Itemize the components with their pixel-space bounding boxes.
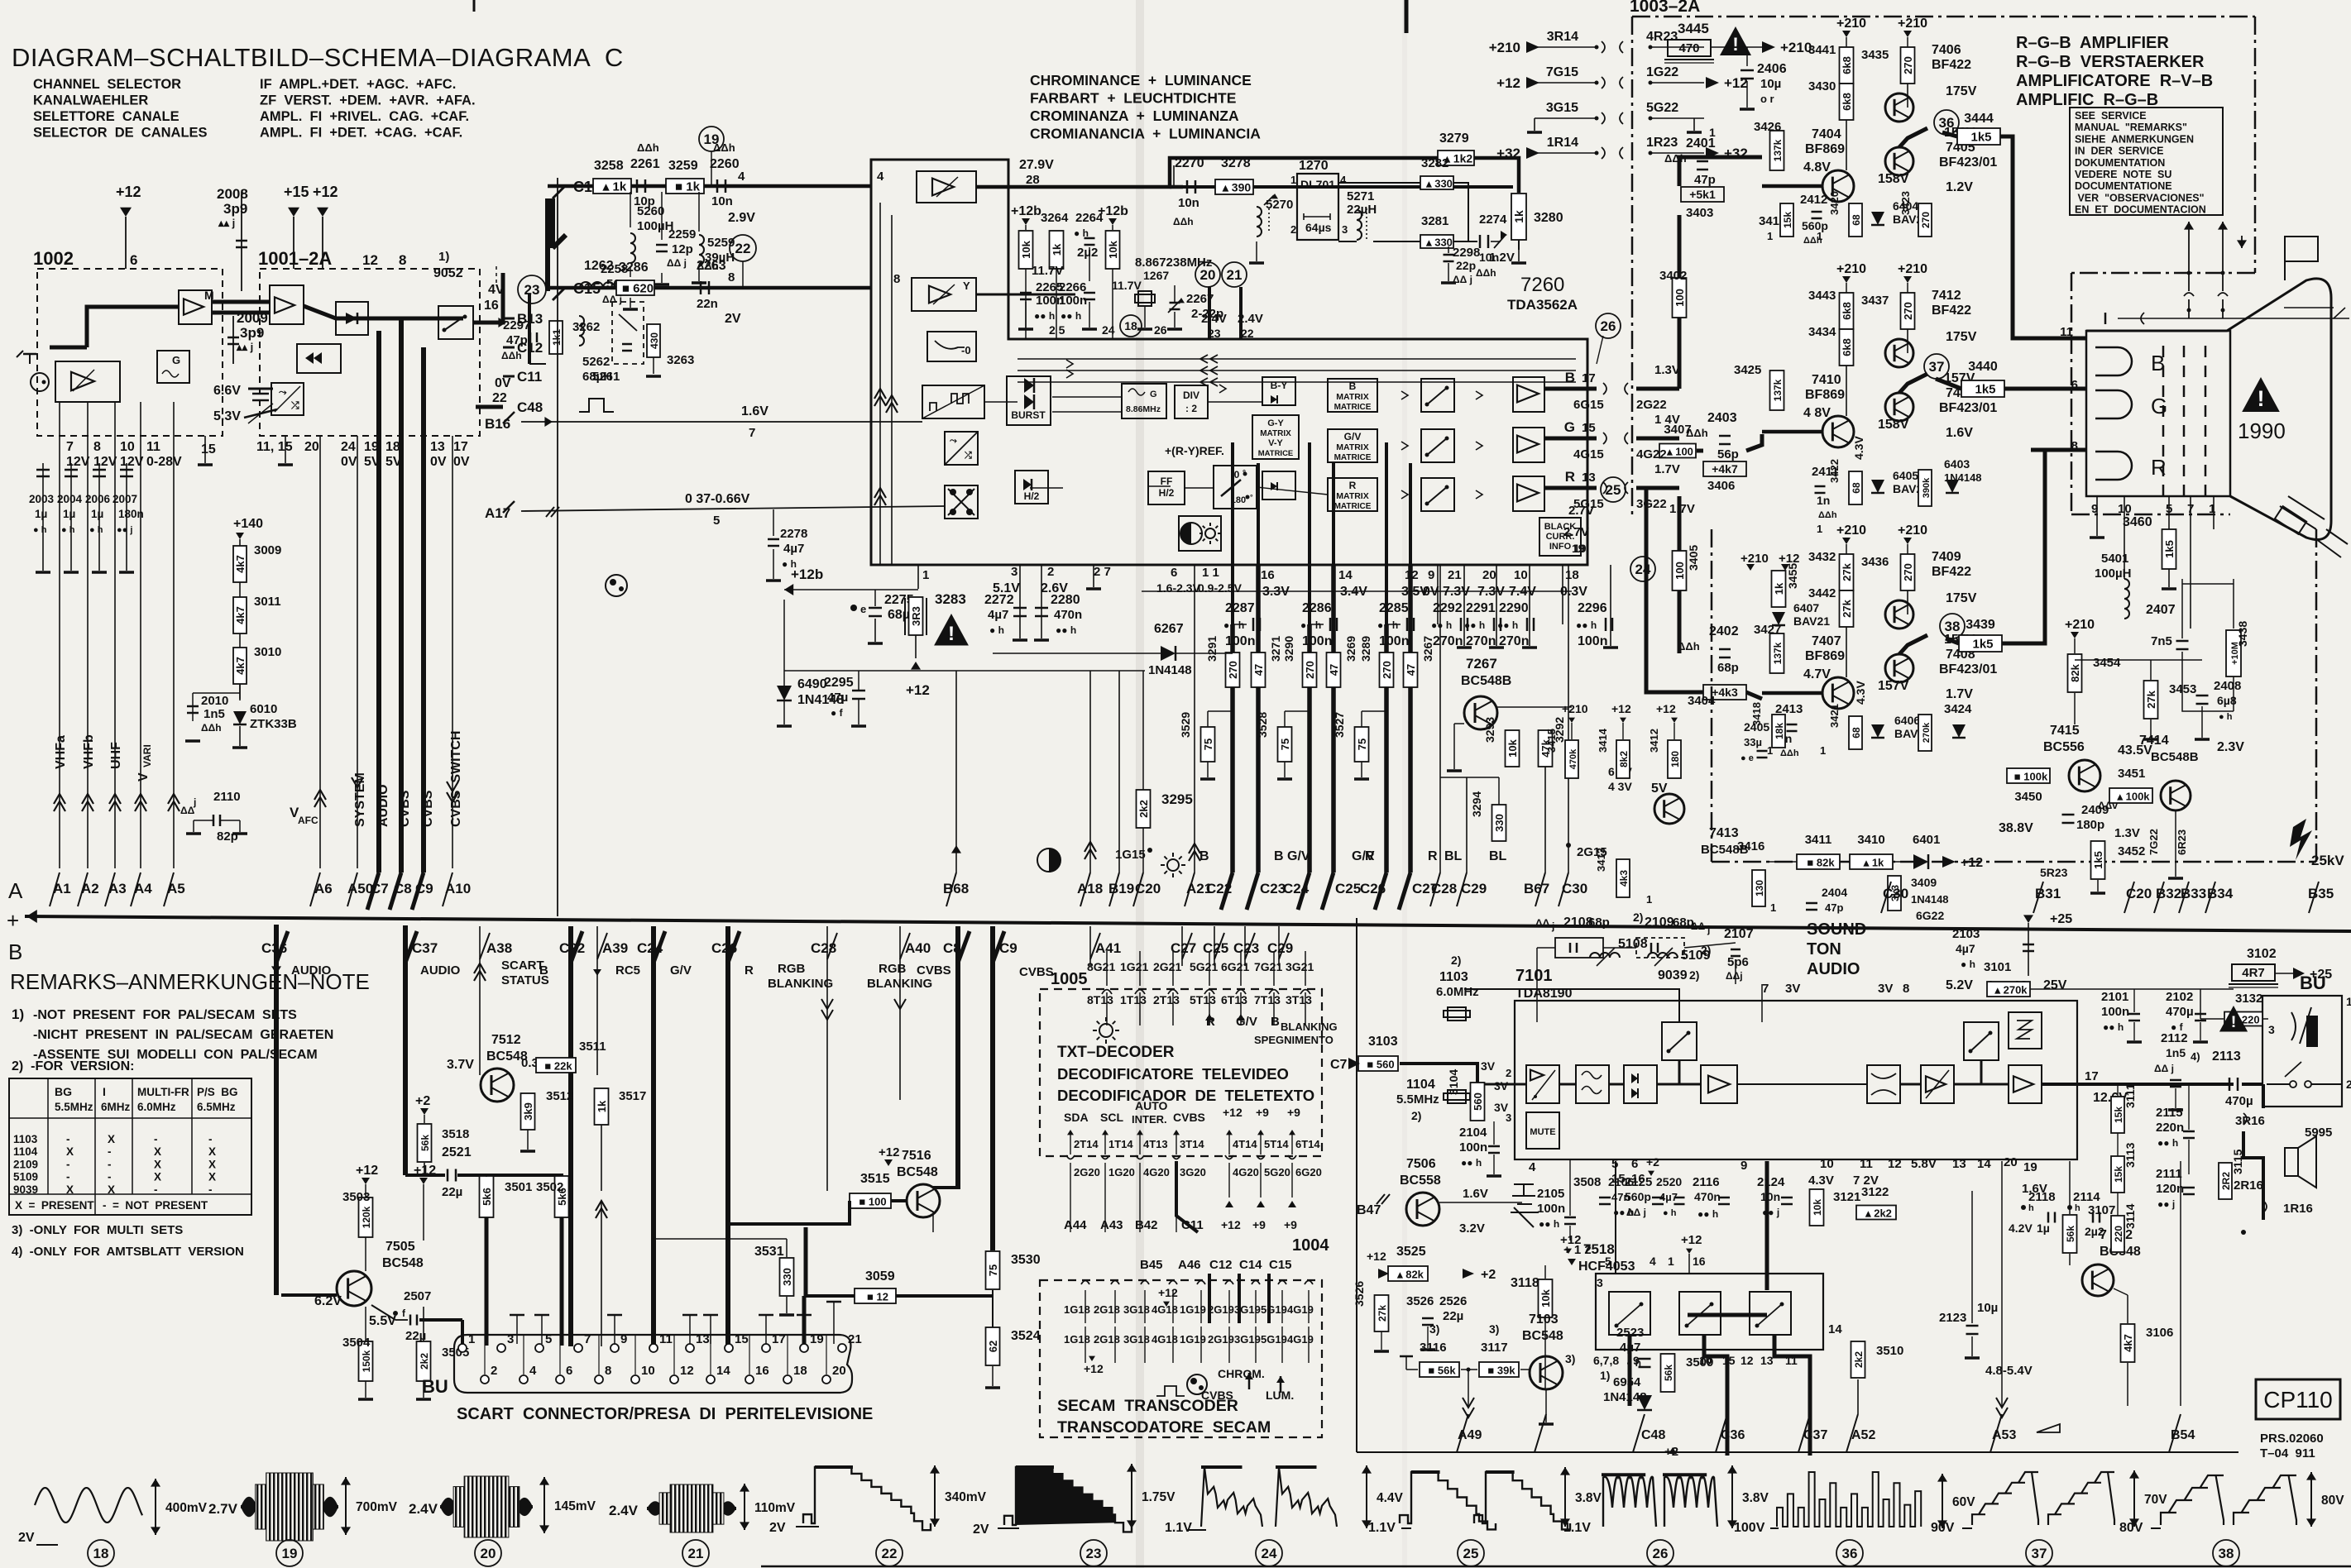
svg-text:2): 2): [1411, 1109, 1421, 1122]
svg-text:CHROM.: CHROM.: [1218, 1367, 1265, 1380]
svg-text:10: 10: [1820, 1157, 1834, 1171]
svg-text:0-28V: 0-28V: [146, 455, 182, 469]
svg-text:2403: 2403: [1707, 411, 1737, 425]
svg-text:3G18: 3G18: [1123, 1303, 1150, 1316]
svg-text:DECODIFICATORE TELEVIDEO: DECODIFICATORE TELEVIDEO: [1057, 1065, 1289, 1083]
svg-text:47: 47: [1405, 664, 1417, 676]
svg-text:3G15: 3G15: [1546, 101, 1578, 115]
svg-text:●● h: ●● h: [2157, 1137, 2178, 1149]
svg-text:●● h: ●● h: [2103, 1021, 2124, 1033]
svg-text:2296: 2296: [1578, 601, 1607, 615]
svg-text:2105: 2105: [1537, 1187, 1564, 1201]
svg-text:3271: 3271: [1269, 636, 1282, 662]
svg-text:3G20: 3G20: [1180, 1166, 1206, 1178]
svg-text:7G21: 7G21: [1254, 960, 1282, 973]
svg-text:2 7: 2 7: [1094, 565, 1111, 579]
svg-text:4.3V: 4.3V: [1808, 1174, 1834, 1188]
svg-text:+15: +15: [284, 184, 309, 200]
svg-text:2402: 2402: [1709, 624, 1739, 638]
svg-text:4µ7: 4µ7: [1620, 1341, 1640, 1355]
svg-text:2109: 2109: [13, 1158, 38, 1170]
svg-text:21: 21: [688, 1546, 704, 1561]
svg-text:8: 8: [1903, 982, 1909, 996]
svg-text:2): 2): [1633, 911, 1643, 924]
svg-text:10n: 10n: [1760, 1190, 1780, 1203]
svg-text:1.6V: 1.6V: [741, 404, 769, 418]
svg-text:14: 14: [716, 1364, 730, 1378]
svg-text:2111: 2111: [2156, 1167, 2182, 1181]
svg-text:DIV: DIV: [1183, 390, 1199, 401]
svg-text:400mV: 400mV: [165, 1501, 208, 1515]
svg-text:8: 8: [605, 1364, 611, 1378]
svg-text:AUDIO: AUDIO: [291, 963, 332, 978]
svg-text:7: 7: [584, 1332, 591, 1346]
svg-text:3402: 3402: [1659, 269, 1687, 283]
svg-text:4G18: 4G18: [1152, 1333, 1178, 1346]
svg-text:3421: 3421: [1828, 704, 1841, 728]
svg-text:■ 39k: ■ 39k: [1487, 1365, 1515, 1377]
svg-text:3411: 3411: [1805, 833, 1832, 847]
svg-text:3): 3): [1429, 1322, 1439, 1336]
svg-text:1.6V: 1.6V: [1946, 426, 1973, 440]
svg-text:6k8: 6k8: [1841, 302, 1853, 320]
svg-text:56k: 56k: [419, 1135, 431, 1151]
svg-text:2.4V: 2.4V: [409, 1501, 438, 1517]
svg-text:100n: 100n: [2101, 1005, 2129, 1019]
svg-text:47p: 47p: [1694, 173, 1716, 187]
svg-text:2G19: 2G19: [1208, 1333, 1234, 1346]
svg-text:2406: 2406: [1757, 62, 1787, 76]
svg-text:h: h: [2075, 1203, 2080, 1213]
svg-text:68: 68: [1851, 482, 1862, 494]
svg-text:2103: 2103: [1952, 927, 1980, 941]
svg-text:+12b: +12b: [1011, 204, 1041, 218]
svg-text:3: 3: [2268, 1023, 2275, 1036]
svg-text:1µ: 1µ: [63, 508, 75, 520]
svg-text:4G19: 4G19: [1287, 1333, 1314, 1346]
svg-text:C11: C11: [517, 369, 542, 385]
svg-text:BF423/01: BF423/01: [1939, 401, 1997, 415]
svg-text:137k: 137k: [1772, 379, 1784, 401]
svg-text:2V: 2V: [18, 1531, 35, 1545]
svg-text:8k2: 8k2: [1618, 751, 1630, 767]
svg-text:1: 1: [1290, 174, 1296, 186]
svg-text:3502: 3502: [536, 1180, 563, 1194]
svg-text:1001–2A: 1001–2A: [258, 248, 332, 269]
svg-text:●● j: ●● j: [117, 525, 132, 535]
svg-text:8: 8: [893, 272, 900, 286]
svg-text:BU: BU: [422, 1376, 448, 1397]
svg-text:BLANKING: BLANKING: [1281, 1021, 1338, 1033]
svg-text:▴ 100k: ▴ 100k: [2116, 791, 2150, 803]
svg-text:5V: 5V: [364, 455, 381, 469]
svg-text:▴ 100: ▴ 100: [1666, 446, 1693, 458]
svg-text:5401: 5401: [2101, 552, 2128, 566]
svg-text:3R14: 3R14: [1547, 30, 1578, 44]
svg-text:C36: C36: [1721, 1428, 1745, 1442]
svg-text:6: 6: [130, 252, 137, 268]
svg-text:3116: 3116: [1420, 1341, 1447, 1355]
svg-text:11.7V: 11.7V: [1032, 264, 1063, 278]
svg-text:SELECTOR DE CANALES: SELECTOR DE CANALES: [33, 126, 208, 141]
svg-text:1G22: 1G22: [1646, 65, 1678, 79]
svg-text:28: 28: [1026, 173, 1040, 187]
svg-text:3102: 3102: [2247, 947, 2277, 961]
svg-text:22µ: 22µ: [405, 1329, 426, 1343]
svg-text:158V: 158V: [1878, 418, 1909, 432]
svg-text:18: 18: [1565, 568, 1579, 582]
svg-text:3290: 3290: [1282, 636, 1295, 662]
svg-text:3R16: 3R16: [2235, 1114, 2265, 1128]
svg-text:1: 1: [1646, 893, 1652, 906]
svg-text:2116: 2116: [1693, 1175, 1720, 1189]
svg-text:7505: 7505: [385, 1240, 415, 1254]
svg-text:B35: B35: [2308, 886, 2334, 901]
svg-text:3460: 3460: [2123, 515, 2152, 529]
svg-text:ZTK33B: ZTK33B: [250, 717, 297, 731]
svg-text:-: -: [108, 1171, 112, 1183]
svg-text:27k: 27k: [1841, 599, 1853, 617]
svg-text:1k1: 1k1: [551, 329, 563, 346]
svg-text:3405: 3405: [1687, 545, 1700, 571]
svg-text:100n: 100n: [1459, 1140, 1487, 1154]
svg-text:6401: 6401: [1913, 833, 1940, 847]
svg-text:FF: FF: [1161, 476, 1173, 487]
svg-text:3122: 3122: [1861, 1185, 1889, 1199]
svg-text:SIEHE ANMERKUNGEN: SIEHE ANMERKUNGEN: [2075, 133, 2194, 145]
svg-text:6405: 6405: [1893, 469, 1918, 482]
svg-text:3267: 3267: [1421, 636, 1434, 662]
svg-text:3k9: 3k9: [522, 1102, 534, 1121]
svg-text:25kV: 25kV: [2311, 853, 2344, 868]
svg-text:● h: ● h: [33, 525, 47, 535]
svg-text:⤳: ⤳: [950, 436, 957, 446]
svg-text:ΔΔ j: ΔΔ j: [2154, 1063, 2174, 1074]
svg-text:3V: 3V: [1481, 1059, 1496, 1073]
svg-text:j: j: [193, 796, 196, 808]
svg-text:2.4V: 2.4V: [1201, 312, 1227, 326]
svg-text:X: X: [208, 1171, 216, 1183]
svg-text:3: 3: [1342, 223, 1348, 236]
svg-text:3453: 3453: [2169, 682, 2196, 696]
svg-text:+12: +12: [1779, 552, 1799, 566]
svg-text:3: 3: [1506, 1111, 1511, 1124]
svg-text:+9: +9: [1256, 1106, 1269, 1119]
svg-text:!: !: [2231, 1013, 2237, 1031]
svg-text:10n: 10n: [1178, 196, 1199, 210]
svg-text:SEE SERVICE: SEE SERVICE: [2075, 110, 2147, 122]
svg-text:R: R: [745, 963, 754, 978]
svg-text:470µ: 470µ: [2225, 1094, 2253, 1108]
svg-text:18: 18: [793, 1364, 807, 1378]
svg-text:3258: 3258: [594, 159, 624, 173]
svg-text:25: 25: [1606, 482, 1621, 498]
svg-text:4 8V: 4 8V: [1803, 406, 1831, 420]
svg-text:12: 12: [680, 1364, 694, 1378]
svg-text:4G15: 4G15: [1573, 447, 1604, 461]
svg-text:h: h: [2028, 1203, 2034, 1213]
svg-text:RC5: RC5: [615, 963, 640, 978]
svg-text:SELETTORE CANALE: SELETTORE CANALE: [33, 109, 180, 124]
svg-text:3009: 3009: [254, 543, 281, 557]
svg-text:A43: A43: [1100, 1218, 1123, 1232]
svg-text:G/V: G/V: [1344, 431, 1362, 442]
svg-text:MATRICE: MATRICE: [1334, 403, 1372, 412]
svg-text:4.4V: 4.4V: [1377, 1491, 1404, 1505]
svg-text:AMPLIFIC R–G–B: AMPLIFIC R–G–B: [2016, 91, 2158, 109]
svg-text:3403: 3403: [1686, 206, 1713, 220]
svg-text:1R16: 1R16: [2283, 1202, 2313, 1216]
svg-text:⤳: ⤳: [279, 386, 287, 398]
svg-text:BF869: BF869: [1805, 142, 1845, 156]
svg-text:BF869: BF869: [1805, 388, 1845, 402]
svg-text:1n5: 1n5: [2166, 1046, 2186, 1059]
svg-text:27.9V: 27.9V: [1019, 158, 1054, 172]
svg-text:2010: 2010: [201, 694, 228, 708]
svg-text:120n: 120n: [2156, 1182, 2184, 1196]
svg-text:2287: 2287: [1225, 601, 1255, 615]
svg-text:2.7V: 2.7V: [208, 1501, 238, 1517]
svg-text:6.0MHz: 6.0MHz: [1436, 985, 1479, 999]
svg-text:3283: 3283: [935, 591, 966, 607]
svg-text:90V: 90V: [1931, 1521, 1955, 1535]
svg-text:21: 21: [848, 1332, 862, 1346]
svg-text:X: X: [108, 1183, 115, 1196]
svg-text:12V: 12V: [66, 455, 90, 469]
svg-text:2263: 2263: [697, 259, 726, 273]
svg-text:70V: 70V: [2144, 1493, 2167, 1507]
svg-text:1: 1: [1668, 1255, 1674, 1268]
svg-text:1k: 1k: [596, 1100, 608, 1112]
svg-text:1.1V: 1.1V: [1368, 1521, 1396, 1535]
svg-text:37: 37: [2032, 1546, 2047, 1561]
svg-text:270: 270: [1304, 661, 1316, 679]
svg-text:470k: 470k: [1568, 748, 1578, 769]
svg-text:6010: 6010: [250, 702, 277, 716]
svg-text:82p: 82p: [217, 829, 238, 844]
svg-text:C25: C25: [1335, 881, 1361, 896]
svg-text:2285: 2285: [1379, 601, 1409, 615]
svg-text:5.3V: 5.3V: [213, 409, 241, 423]
svg-text:● h: ● h: [61, 525, 75, 535]
svg-text:15k: 15k: [2113, 1107, 2124, 1123]
svg-text:5V: 5V: [1651, 782, 1668, 796]
svg-text:2.7V: 2.7V: [1563, 525, 1589, 539]
svg-text:BC548B: BC548B: [2151, 750, 2199, 764]
svg-text:38: 38: [1945, 619, 1961, 634]
svg-text:110mV: 110mV: [754, 1501, 796, 1515]
svg-text:16: 16: [755, 1364, 769, 1378]
svg-text:+210: +210: [1836, 262, 1866, 276]
svg-text:●● h: ●● h: [1497, 619, 1518, 631]
svg-text:3454: 3454: [2093, 656, 2121, 670]
svg-text:MATRIX: MATRIX: [1260, 429, 1291, 438]
svg-text:75: 75: [987, 1264, 999, 1276]
svg-text:100n: 100n: [1379, 634, 1409, 648]
svg-text:3434: 3434: [1808, 325, 1836, 339]
svg-text:13: 13: [430, 440, 445, 454]
svg-text:15k: 15k: [1782, 212, 1793, 228]
svg-text:IF AMPL.+DET. +AGC. +AFC.: IF AMPL.+DET. +AGC. +AFC.: [260, 77, 456, 92]
svg-text:+: +: [7, 908, 19, 933]
svg-text:12: 12: [362, 252, 378, 268]
svg-text:270: 270: [1920, 212, 1932, 228]
svg-text:2104: 2104: [1459, 1126, 1487, 1140]
svg-text:ΔΔ: ΔΔ: [1691, 920, 1706, 932]
svg-text:11: 11: [659, 1332, 673, 1346]
svg-text:3117: 3117: [1481, 1341, 1508, 1355]
svg-text:19: 19: [364, 440, 379, 454]
svg-text:+12: +12: [414, 1164, 436, 1178]
svg-text:3420: 3420: [1828, 191, 1841, 215]
svg-text:B: B: [1565, 370, 1575, 385]
svg-text:+210: +210: [1562, 702, 1588, 715]
svg-text:BC548B: BC548B: [1461, 674, 1511, 688]
svg-text:2260: 2260: [710, 157, 740, 171]
svg-text:3504: 3504: [342, 1336, 371, 1350]
svg-text:14: 14: [1977, 1157, 1991, 1171]
svg-text:▴ 270k: ▴ 270k: [1994, 984, 2028, 997]
svg-text:3413: 3413: [1595, 848, 1607, 872]
svg-text:2102: 2102: [2166, 990, 2193, 1004]
svg-text:10k: 10k: [1539, 1288, 1552, 1307]
svg-text:C37: C37: [412, 940, 438, 956]
svg-text:2k2: 2k2: [419, 1353, 430, 1370]
svg-text:1.7V: 1.7V: [1946, 687, 1973, 701]
svg-text:1k5: 1k5: [2092, 851, 2104, 869]
svg-text:ΔΔh: ΔΔh: [1818, 510, 1837, 520]
svg-text:3263: 3263: [667, 353, 694, 367]
svg-text:B42: B42: [1135, 1218, 1158, 1232]
svg-text:21: 21: [1448, 568, 1462, 582]
svg-text:+210: +210: [2065, 618, 2095, 632]
svg-text:3: 3: [1597, 1276, 1603, 1289]
svg-text:3423: 3423: [1899, 191, 1912, 215]
svg-text:4: 4: [877, 170, 884, 184]
svg-text:100: 100: [1673, 289, 1686, 307]
svg-text:27k: 27k: [1377, 1305, 1388, 1322]
svg-text:75: 75: [1279, 739, 1291, 750]
svg-text:10k: 10k: [1020, 240, 1032, 258]
svg-text:2274: 2274: [1479, 213, 1507, 227]
svg-text:2G20: 2G20: [1074, 1166, 1100, 1178]
svg-text:1R14: 1R14: [1547, 136, 1578, 150]
svg-text:3111: 3111: [2124, 1083, 2137, 1108]
svg-text:4G19: 4G19: [1287, 1303, 1314, 1316]
svg-text:UHF: UHF: [109, 742, 123, 769]
svg-text:13: 13: [1952, 1157, 1966, 1171]
svg-text:ZF VERST. +DEM. +AVR. +AFA: ZF VERST. +DEM. +AVR. +AFA.: [260, 93, 476, 108]
svg-text:5: 5: [713, 514, 720, 528]
svg-text:●● h: ●● h: [1056, 624, 1076, 636]
svg-text:5p6: 5p6: [1727, 955, 1749, 969]
svg-text:-NOT PRESENT FOR PAL/SECAM: -NOT PRESENT FOR PAL/SECAM SETS: [33, 1008, 297, 1022]
svg-text:C12: C12: [1209, 1258, 1233, 1272]
svg-text:▴ 330: ▴ 330: [1425, 178, 1453, 190]
svg-text:3.8V: 3.8V: [1575, 1491, 1602, 1505]
svg-text:5G19: 5G19: [1261, 1303, 1287, 1316]
svg-text:270: 270: [1381, 661, 1393, 679]
svg-text:2270: 2270: [1175, 156, 1204, 170]
svg-text:75: 75: [1356, 739, 1368, 750]
svg-text:1.6V: 1.6V: [1463, 1187, 1488, 1201]
svg-text:G: G: [2151, 394, 2167, 418]
svg-text:16: 16: [1693, 1255, 1706, 1268]
svg-text:1G19: 1G19: [1180, 1333, 1206, 1346]
svg-text:B: B: [1199, 849, 1209, 863]
svg-text:64µs: 64µs: [1305, 221, 1332, 234]
svg-text:G/V: G/V: [1287, 849, 1310, 863]
svg-text:MATRICE: MATRICE: [1258, 449, 1294, 458]
svg-text:CP110: CP110: [2263, 1387, 2333, 1413]
svg-text:+12: +12: [1084, 1362, 1104, 1375]
svg-text:1.7V: 1.7V: [1654, 462, 1680, 476]
svg-text:3101: 3101: [1984, 960, 2011, 974]
svg-text:330: 330: [1493, 814, 1506, 832]
svg-text:5G21: 5G21: [1190, 960, 1218, 973]
svg-text:24: 24: [1635, 562, 1651, 577]
svg-text:3412: 3412: [1648, 729, 1660, 753]
svg-text:6k8: 6k8: [1841, 56, 1853, 74]
svg-text:5261: 5261: [592, 370, 620, 384]
svg-text:1104: 1104: [1406, 1078, 1435, 1092]
svg-text:A52: A52: [1851, 1428, 1875, 1442]
svg-text:12V: 12V: [120, 455, 144, 469]
svg-text:47n: 47n: [1611, 1191, 1630, 1203]
svg-text:+2: +2: [1646, 1155, 1659, 1169]
svg-text:2118: 2118: [2028, 1190, 2056, 1204]
svg-text:2408: 2408: [2214, 679, 2241, 693]
svg-text:2V: 2V: [769, 1521, 786, 1535]
svg-text:2: 2: [1047, 565, 1054, 579]
svg-text:6: 6: [1631, 1157, 1638, 1171]
svg-text:1G20: 1G20: [1108, 1166, 1135, 1178]
svg-text:1: 1: [1817, 523, 1822, 535]
svg-text:3451: 3451: [2118, 767, 2145, 781]
svg-text:●● h: ●● h: [1464, 619, 1485, 631]
svg-text:3118: 3118: [1511, 1276, 1539, 1290]
svg-text:DOCUMENTATIONE: DOCUMENTATIONE: [2075, 180, 2172, 192]
svg-text:-: -: [208, 1183, 213, 1196]
svg-text:SOUND: SOUND: [1807, 920, 1866, 939]
svg-text:-: -: [154, 1133, 158, 1145]
svg-text:4: 4: [1650, 1255, 1656, 1268]
svg-text:4µ7: 4µ7: [783, 542, 804, 556]
svg-text:+9: +9: [1252, 1218, 1266, 1231]
svg-text:1): 1): [438, 250, 449, 264]
svg-text:3432: 3432: [1808, 550, 1836, 564]
svg-text:2008: 2008: [217, 186, 248, 202]
svg-text:3293: 3293: [1483, 717, 1496, 743]
svg-text:B-Y: B-Y: [1271, 380, 1288, 391]
svg-text:C48: C48: [517, 399, 543, 415]
svg-text:▴ 2k2: ▴ 2k2: [1865, 1207, 1892, 1220]
svg-text:1n: 1n: [1817, 494, 1830, 507]
svg-text:A46: A46: [1178, 1258, 1201, 1272]
svg-text:5k6: 5k6: [481, 1188, 493, 1206]
svg-text:MATRIX: MATRIX: [1336, 442, 1368, 452]
svg-text:BC548: BC548: [1522, 1329, 1563, 1343]
svg-text:▴▴ j: ▴▴ j: [218, 217, 235, 229]
svg-text:68: 68: [1851, 727, 1862, 739]
svg-text:CVBS: CVBS: [1173, 1111, 1205, 1124]
svg-text:C29: C29: [1461, 881, 1487, 896]
svg-text:+32: +32: [1496, 146, 1520, 161]
svg-text:C7: C7: [1330, 1058, 1348, 1072]
svg-text:- = NOT PRESENT: - = NOT PRESENT: [103, 1199, 208, 1212]
svg-text:SCART CONNECTOR/PRESA DI PE: SCART CONNECTOR/PRESA DI PERITELEVISIONE: [457, 1405, 873, 1423]
svg-text:24: 24: [1262, 1546, 1277, 1561]
